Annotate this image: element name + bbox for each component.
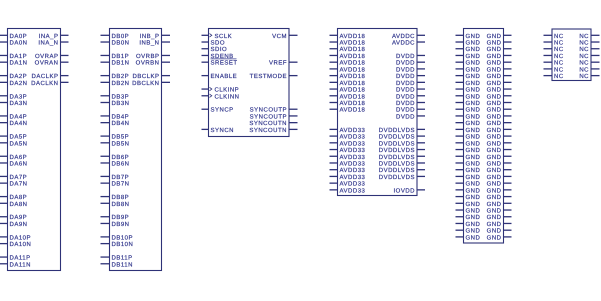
pin GND (right, U1E) [487,154,512,161]
svg-text:GND: GND [466,181,481,188]
svg-text:OVRAP: OVRAP [35,53,59,60]
pin GND (left, U1E) [456,201,481,208]
pin NC (left, U1F) [544,73,564,80]
svg-text:AVDD18: AVDD18 [340,40,366,47]
svg-text:AVDD18: AVDD18 [340,107,366,114]
pin DB11N (left, U1B) [101,261,133,268]
svg-text:DVDDLVDS: DVDDLVDS [379,154,415,161]
pin GND (left, U1E) [456,87,481,94]
IC symbol U1E - ground pins block [464,29,504,244]
pin SYNCN (left, U1C) [202,127,235,134]
svg-text:AVDD18: AVDD18 [340,80,366,87]
pin DA10P (left, U1A) [0,234,31,241]
pin GND (right, U1E) [487,187,512,194]
svg-text:GND: GND [487,187,502,194]
IC symbol U1C - serial control / clock block [209,29,290,137]
pin GND (left, U1E) [456,174,481,181]
pin INA_N (right, U1A) [38,40,68,47]
svg-text:GND: GND [466,113,481,120]
svg-text:DVDD: DVDD [396,53,415,60]
svg-text:DVDD: DVDD [396,80,415,87]
pin GND (left, U1E) [456,107,481,114]
pin AVDD33 (left, U1D) [330,187,366,194]
pin DA4P (left, U1A) [0,113,27,120]
svg-text:GND: GND [466,147,481,154]
svg-text:DVDDLVDS: DVDDLVDS [379,127,415,134]
pin SRESET (left, U1C) [202,59,238,67]
svg-text:DBCLKN: DBCLKN [132,80,159,87]
svg-text:NC: NC [554,33,564,40]
pin GND (left, U1E) [456,73,481,80]
pin GND (right, U1E) [487,113,512,120]
svg-text:INB_N: INB_N [139,40,159,47]
pin GND (left, U1E) [456,60,481,67]
svg-text:DVDD: DVDD [396,73,415,80]
svg-text:ENABLE: ENABLE [211,73,238,80]
svg-text:GND: GND [466,214,481,221]
pin AVDD33 (left, U1D) [330,181,366,188]
pin DB9N (left, U1B) [101,221,130,228]
svg-text:DA4P: DA4P [10,113,28,120]
pin DA0P (left, U1A) [0,33,27,40]
svg-text:DB8N: DB8N [112,201,130,208]
pin GND (left, U1E) [456,113,481,120]
svg-text:GND: GND [487,228,502,235]
pin GND (right, U1E) [487,221,512,228]
pin GND (left, U1E) [456,66,481,73]
pin AVDDC (right, U1D) [392,40,425,47]
pin DB3P (left, U1B) [101,93,130,100]
pin GND (right, U1E) [487,40,512,47]
svg-text:DB4P: DB4P [112,113,130,120]
svg-text:DA4N: DA4N [10,120,28,127]
pin DB0N (left, U1B) [101,40,130,47]
svg-text:AVDD33: AVDD33 [340,174,366,181]
svg-text:NC: NC [554,60,564,67]
pin AVDD18 (left, U1D) [330,33,366,40]
pin DB4P (left, U1B) [101,113,130,120]
pin GND (left, U1E) [456,208,481,215]
pin SDO (left, U1C) [202,40,226,47]
svg-text:INB_P: INB_P [140,33,160,40]
svg-text:DA5P: DA5P [10,134,28,141]
pin GND (right, U1E) [487,167,512,174]
pin DVDDLVDS (right, U1D) [379,140,425,147]
pin DA2N (left, U1A) [0,80,28,87]
pin DA7P (left, U1A) [0,174,27,181]
svg-text:AVDD18: AVDD18 [340,100,366,107]
pin NC (right, U1F) [579,46,599,53]
svg-text:DA11N: DA11N [10,261,31,268]
pin NC (right, U1F) [579,33,599,40]
svg-text:DB5N: DB5N [112,140,130,147]
svg-text:NC: NC [579,53,589,60]
svg-text:NC: NC [579,33,589,40]
svg-text:AVDDC: AVDDC [392,33,415,40]
svg-text:GND: GND [487,234,502,241]
pin DA0N (left, U1A) [0,40,28,47]
svg-text:NC: NC [579,66,589,73]
pin DA6N (left, U1A) [0,161,28,168]
pin DA3P (left, U1A) [0,93,27,100]
pin AVDD18 (left, U1D) [330,93,366,100]
svg-text:GND: GND [487,93,502,100]
pin DVDD (right, U1D) [396,80,425,87]
svg-text:DB1P: DB1P [112,53,130,60]
svg-text:GND: GND [466,167,481,174]
pin SYNCOUTN (right, U1C) [249,120,297,127]
pin DA1N (left, U1A) [0,60,28,67]
svg-text:DA1P: DA1P [10,53,28,60]
svg-text:GND: GND [487,53,502,60]
svg-text:AVDD18: AVDD18 [340,87,366,94]
svg-text:OVRBP: OVRBP [136,53,160,60]
svg-text:NC: NC [579,60,589,67]
svg-text:INA_N: INA_N [38,40,58,47]
pin DVDDLVDS (right, U1D) [379,174,425,181]
pin DA10N (left, U1A) [0,241,31,248]
pin SDIO (left, U1C) [202,46,228,53]
pin AVDD18 (left, U1D) [330,73,366,80]
pin GND (right, U1E) [487,87,512,94]
pin DBCLKP (right, U1B) [132,73,170,80]
svg-text:DBCLKP: DBCLKP [132,73,159,80]
pin GND (left, U1E) [456,181,481,188]
pin DB6N (left, U1B) [101,161,130,168]
pin DB2P (left, U1B) [101,73,130,80]
svg-text:GND: GND [466,221,481,228]
svg-text:GND: GND [487,208,502,215]
IC symbol U1F - no-connect pins block [552,29,591,81]
pin IOVDD (right, U1D) [393,187,425,194]
pin DVDDLVDS (right, U1D) [379,147,425,154]
svg-text:DB5P: DB5P [112,134,130,141]
pin AVDD33 (left, U1D) [330,174,366,181]
pin DVDD (right, U1D) [396,60,425,67]
pin AVDD18 (left, U1D) [330,53,366,60]
pin NC (right, U1F) [579,40,599,47]
svg-text:SYNCN: SYNCN [211,127,235,134]
pin DVDD (right, U1D) [396,53,425,60]
pin GND (right, U1E) [487,127,512,134]
pin GND (left, U1E) [456,194,481,201]
pin GND (left, U1E) [456,53,481,60]
pin SYNCOUTP (right, U1C) [250,113,298,120]
pin DB8P (left, U1B) [101,194,130,201]
svg-text:GND: GND [487,154,502,161]
svg-text:DB11P: DB11P [112,255,133,262]
pin AVDD18 (left, U1D) [330,100,366,107]
svg-text:DA7P: DA7P [10,174,28,181]
svg-text:GND: GND [466,120,481,127]
pin NC (right, U1F) [579,60,599,67]
svg-text:GND: GND [466,33,481,40]
pin DB0P (left, U1B) [101,33,130,40]
svg-text:GND: GND [466,66,481,73]
svg-text:GND: GND [466,234,481,241]
pin GND (right, U1E) [487,194,512,201]
svg-text:GND: GND [466,93,481,100]
pin GND (left, U1E) [456,46,481,53]
svg-text:DB2P: DB2P [112,73,130,80]
svg-text:GND: GND [487,87,502,94]
svg-text:GND: GND [466,194,481,201]
svg-text:GND: GND [466,87,481,94]
svg-text:DA0P: DA0P [10,33,28,40]
svg-text:NC: NC [579,40,589,47]
pin GND (left, U1E) [456,228,481,235]
pin DA9N (left, U1A) [0,221,28,228]
svg-text:GND: GND [466,100,481,107]
pin DVDDLVDS (right, U1D) [379,134,425,141]
svg-text:DA8N: DA8N [10,201,28,208]
pin GND (right, U1E) [487,174,512,181]
pin AVDD18 (left, U1D) [330,46,366,53]
svg-text:DB8P: DB8P [112,194,130,201]
pin NC (left, U1F) [544,60,564,67]
svg-text:SRESET: SRESET [211,60,238,67]
svg-text:GND: GND [487,147,502,154]
pin DVDDLVDS (right, U1D) [379,167,425,174]
svg-text:GND: GND [487,60,502,67]
pin DB10N (left, U1B) [101,241,134,248]
pin DVDDLVDS (right, U1D) [379,161,425,168]
pin GND (right, U1E) [487,181,512,188]
svg-text:IOVDD: IOVDD [393,187,415,194]
svg-text:AVDD18: AVDD18 [340,60,366,67]
pin NC (right, U1F) [579,73,599,80]
svg-text:GND: GND [487,201,502,208]
svg-text:DA10P: DA10P [10,234,32,241]
svg-text:DVDD: DVDD [396,100,415,107]
svg-text:GND: GND [487,120,502,127]
pin DVDD (right, U1D) [396,93,425,100]
pin DA2P (left, U1A) [0,73,27,80]
svg-text:DVDD: DVDD [396,60,415,67]
pin ENABLE (left, U1C) [202,73,238,80]
pin NC (right, U1F) [579,53,599,60]
pin DACLKP (right, U1A) [31,73,68,80]
pin DB8N (left, U1B) [101,201,130,208]
svg-text:GND: GND [466,73,481,80]
pin GND (right, U1E) [487,134,512,141]
svg-text:DVDDLVDS: DVDDLVDS [379,167,415,174]
svg-text:VCM: VCM [272,33,287,40]
pin DVDDLVDS (right, U1D) [379,127,425,134]
pin AVDD18 (left, U1D) [330,60,366,67]
pin DA5P (left, U1A) [0,134,27,141]
svg-text:DB10N: DB10N [112,241,134,248]
svg-text:GND: GND [466,53,481,60]
pin OVRBN (right, U1B) [136,60,170,67]
svg-text:DA3P: DA3P [10,93,28,100]
pin GND (right, U1E) [487,120,512,127]
svg-text:DB4N: DB4N [112,120,130,127]
pin AVDD18 (left, U1D) [330,107,366,114]
svg-text:GND: GND [487,161,502,168]
svg-text:DA2N: DA2N [10,80,28,87]
pin AVDD33 (left, U1D) [330,127,366,134]
svg-text:DA3N: DA3N [10,100,28,107]
IC symbol U1B - DAC port B data inputs block [110,29,162,271]
svg-text:GND: GND [466,46,481,53]
svg-text:SCLK: SCLK [215,33,233,40]
svg-text:DA11P: DA11P [10,255,31,262]
svg-text:DB2N: DB2N [112,80,130,87]
svg-text:SDO: SDO [211,40,226,47]
pin DBCLKN (right, U1B) [132,80,170,87]
pin GND (right, U1E) [487,60,512,67]
svg-text:NC: NC [579,46,589,53]
svg-text:GND: GND [487,134,502,141]
svg-text:DB11N: DB11N [112,261,133,268]
svg-text:CLKINP: CLKINP [215,87,240,94]
svg-text:SDIO: SDIO [211,46,228,53]
svg-text:DA2P: DA2P [10,73,28,80]
pin DB1N (left, U1B) [101,60,130,67]
pin DVDDLVDS (right, U1D) [379,154,425,161]
pin GND (right, U1E) [487,147,512,154]
svg-text:NC: NC [554,46,564,53]
svg-text:GND: GND [487,100,502,107]
svg-text:GND: GND [466,140,481,147]
pin GND (left, U1E) [456,214,481,221]
svg-text:DB0N: DB0N [112,40,130,47]
svg-text:DACLKP: DACLKP [31,73,58,80]
svg-text:AVDD33: AVDD33 [340,134,366,141]
pin DVDD (right, U1D) [396,73,425,80]
svg-text:DB7P: DB7P [112,174,130,181]
svg-text:GND: GND [466,208,481,215]
svg-text:DVDDLVDS: DVDDLVDS [379,134,415,141]
svg-text:GND: GND [466,107,481,114]
pin CLKINN (left, U1C) [202,93,240,100]
pin DA1P (left, U1A) [0,53,27,60]
svg-text:DA0N: DA0N [10,40,28,47]
svg-text:GND: GND [487,194,502,201]
pin OVRAP (right, U1A) [35,53,69,60]
pin GND (right, U1E) [487,100,512,107]
svg-text:AVDD33: AVDD33 [340,127,366,134]
svg-text:DA9P: DA9P [10,214,28,221]
pin SCLK (left, U1C) [202,33,233,40]
svg-text:DA10N: DA10N [10,241,32,248]
pin DA8N (left, U1A) [0,201,28,208]
pin GND (right, U1E) [487,53,512,60]
pin SYNCOUTP (right, U1C) [250,107,298,114]
pin AVDD33 (left, U1D) [330,140,366,147]
svg-text:DVDD: DVDD [396,87,415,94]
svg-text:DVDDLVDS: DVDDLVDS [379,161,415,168]
pin GND (left, U1E) [456,127,481,134]
svg-text:DACLKN: DACLKN [31,80,58,87]
svg-text:GND: GND [487,174,502,181]
svg-text:OVRBN: OVRBN [136,60,160,67]
pin DVDD (right, U1D) [396,87,425,94]
pin NC (left, U1F) [544,53,564,60]
svg-text:SYNCOUTP: SYNCOUTP [250,107,287,114]
pin GND (left, U1E) [456,147,481,154]
svg-text:DA1N: DA1N [10,60,28,67]
pin GND (right, U1E) [487,228,512,235]
pin INB_N (right, U1B) [139,40,170,47]
svg-text:DA7N: DA7N [10,181,28,188]
pin SYNCOUTN (right, U1C) [249,127,297,134]
pin GND (left, U1E) [456,187,481,194]
pin GND (left, U1E) [456,80,481,87]
pin AVDD18 (left, U1D) [330,66,366,73]
pin GND (left, U1E) [456,40,481,47]
pin GND (left, U1E) [456,100,481,107]
svg-text:GND: GND [487,40,502,47]
pin GND (right, U1E) [487,140,512,147]
svg-text:DA5N: DA5N [10,140,28,147]
pin GND (left, U1E) [456,221,481,228]
pin DB10P (left, U1B) [101,234,134,241]
pin NC (left, U1F) [544,33,564,40]
pin GND (left, U1E) [456,33,481,40]
pin GND (right, U1E) [487,66,512,73]
svg-text:GND: GND [466,187,481,194]
pin GND (right, U1E) [487,93,512,100]
svg-text:DVDDLVDS: DVDDLVDS [379,174,415,181]
svg-text:GND: GND [487,46,502,53]
svg-text:GND: GND [466,201,481,208]
pin AVDD33 (left, U1D) [330,154,366,161]
pin SDENB (left, U1C) [202,53,234,60]
pin DB3N (left, U1B) [101,100,130,107]
svg-text:GND: GND [487,181,502,188]
pin AVDD33 (left, U1D) [330,167,366,174]
svg-text:DA9N: DA9N [10,221,28,228]
pin GND (left, U1E) [456,140,481,147]
pin GND (right, U1E) [487,208,512,215]
pin GND (left, U1E) [456,134,481,141]
svg-text:AVDD18: AVDD18 [340,33,366,40]
svg-text:OVRAN: OVRAN [35,60,59,67]
svg-text:DB10P: DB10P [112,234,134,241]
IC symbol U1A - DAC port A data inputs block [8,29,61,271]
pin DA3N (left, U1A) [0,100,28,107]
svg-text:NC: NC [554,73,564,80]
pin GND (right, U1E) [487,107,512,114]
svg-text:TESTMODE: TESTMODE [250,73,287,80]
svg-text:GND: GND [487,167,502,174]
pin DB7N (left, U1B) [101,181,130,188]
pin NC (left, U1F) [544,46,564,53]
svg-text:GND: GND [487,127,502,134]
pin DB5N (left, U1B) [101,140,130,147]
svg-text:DB6N: DB6N [112,161,130,168]
svg-text:DVDD: DVDD [396,113,415,120]
pin SYNCP (left, U1C) [202,107,234,114]
pin DACLKN (right, U1A) [31,80,68,87]
svg-text:SYNCOUTP: SYNCOUTP [250,113,287,120]
svg-text:AVDD33: AVDD33 [340,181,366,188]
pin DA5N (left, U1A) [0,140,28,147]
pin GND (right, U1E) [487,234,512,241]
svg-text:AVDDC: AVDDC [392,40,415,47]
pin DB7P (left, U1B) [101,174,130,181]
pin DA9P (left, U1A) [0,214,27,221]
pin GND (left, U1E) [456,167,481,174]
pin DA8P (left, U1A) [0,194,27,201]
svg-text:NC: NC [554,53,564,60]
svg-text:AVDD18: AVDD18 [340,73,366,80]
svg-text:GND: GND [466,154,481,161]
pin GND (left, U1E) [456,234,481,241]
pin DA6P (left, U1A) [0,154,27,161]
